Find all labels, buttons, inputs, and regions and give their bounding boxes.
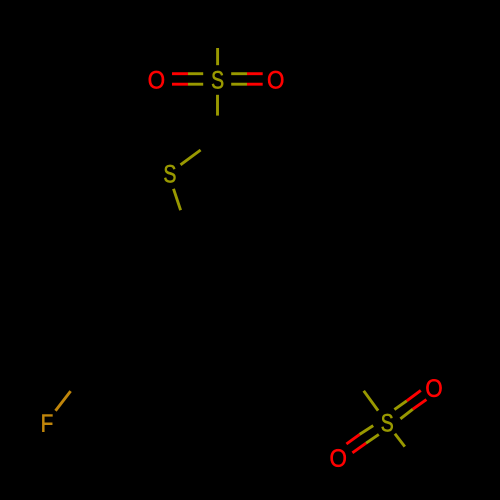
double bond S6=O2 lower line, oxygen half	[247, 83, 263, 86]
double bond S2=O3 lower line, sulfur half	[400, 409, 412, 419]
atom S6 sulfonyl sulfur top	[212, 71, 223, 89]
bond S6-CH3 methyl (top, sulfur half)	[216, 48, 219, 65]
atom O1 sulfonyl oxygen left	[149, 71, 164, 89]
double bond S2=O3 upper line, sulfur half	[394, 401, 406, 410]
atom O2 sulfonyl oxygen right	[268, 71, 283, 89]
atom S2 sulfonyl sulfur bottom right	[382, 414, 393, 432]
double bond S6=O1 lower line, oxygen half	[172, 83, 188, 86]
atom O4 sulfonyl oxygen lower left	[331, 449, 346, 467]
bond F-C(aryl) (fluorine half)	[56, 391, 71, 411]
bond S1-C2 (thiophene ring, sulfur half)	[181, 150, 201, 165]
double bond S2=O4 lower line, oxygen half	[352, 443, 366, 453]
bond S1-C5 (thiophene ring, sulfur half)	[174, 189, 181, 210]
double bond S2=O4 lower line, sulfur half	[366, 434, 379, 443]
double bond S6=O2 upper line, sulfur half	[231, 72, 247, 75]
double bond S6=O1 upper line, oxygen half	[172, 72, 188, 75]
double bond S2=O4 upper line, sulfur half	[360, 426, 374, 435]
double bond S2=O3 lower line, oxygen half	[413, 400, 427, 410]
atom O3 sulfonyl oxygen upper right	[426, 379, 441, 397]
bond S6-C2 (down to thiophene ring, sulfur half)	[216, 95, 219, 116]
bond S2-CH3 methyl (sulfur half, down-right)	[395, 434, 405, 447]
double bond S6=O1 upper line, sulfur half	[188, 72, 203, 75]
double bond S6=O2 upper line, oxygen half	[247, 72, 263, 75]
double bond S6=O1 lower line, sulfur half	[188, 83, 203, 86]
double bond S6=O2 lower line, sulfur half	[231, 83, 247, 86]
atom F fluorine	[42, 415, 52, 432]
double bond S2=O3 upper line, oxygen half	[407, 390, 421, 400]
bond C(aryl)-S2 (sulfur half, up-left)	[364, 391, 378, 411]
double bond S2=O4 upper line, oxygen half	[346, 434, 359, 444]
atom S1 thiophene ring sulfur	[164, 165, 175, 183]
